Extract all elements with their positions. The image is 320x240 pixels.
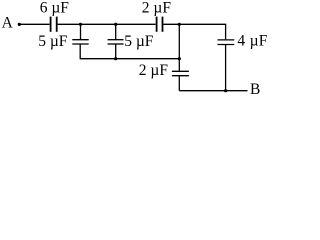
capacitor C6 4uF bottom lead <box>225 45 227 91</box>
capacitor C5 2uF plates <box>172 70 189 72</box>
svg-text:B: B <box>250 81 260 98</box>
wire C4 to top-right corner and down to C6 top plate <box>163 24 225 39</box>
junction dot rail end C5 top <box>178 57 181 60</box>
junction dot C3 bottom on rail <box>114 57 117 60</box>
junction dot C3 top <box>114 23 117 26</box>
junction dot N2 top <box>178 23 181 26</box>
wire C1 to C4 (node N1 top run) <box>58 23 156 25</box>
capacitor C3 5uF bottom lead <box>115 44 117 58</box>
svg-text:6 µF: 6 µF <box>40 0 70 17</box>
node A terminal dot <box>18 23 21 26</box>
capacitor C3 5uF top lead <box>115 24 117 39</box>
capacitor C5 2uF bottom lead to bottom rail <box>178 76 180 91</box>
capacitor C2 5uF bottom lead <box>79 44 81 58</box>
junction dot C2 top <box>79 23 82 26</box>
svg-text:2 µF: 2 µF <box>139 62 169 79</box>
wire bottom rail to B <box>179 90 247 92</box>
svg-text:A: A <box>2 14 14 31</box>
junction dot C6 bottom on rail <box>224 89 227 92</box>
capacitor C4 2uF series plates <box>157 17 163 32</box>
svg-text:5 µF: 5 µF <box>124 33 154 50</box>
capacitor C2 5uF top lead <box>80 24 82 39</box>
capacitor C3 5uF plates <box>108 39 124 41</box>
capacitor C2 5uF plates <box>72 39 88 41</box>
capacitor C1 6uF plates <box>51 17 57 32</box>
svg-text:4 µF: 4 µF <box>237 32 267 49</box>
svg-text:2 µF: 2 µF <box>142 0 172 16</box>
capacitor C6 4uF plates <box>218 39 235 41</box>
svg-text:5 µF: 5 µF <box>38 33 68 50</box>
wire middle rail node N2 <box>80 58 180 60</box>
wire A to C1 left plate <box>19 23 49 25</box>
capacitor C5 2uF top lead <box>178 59 180 71</box>
wire vertical drop N2 top to rail <box>178 24 180 58</box>
